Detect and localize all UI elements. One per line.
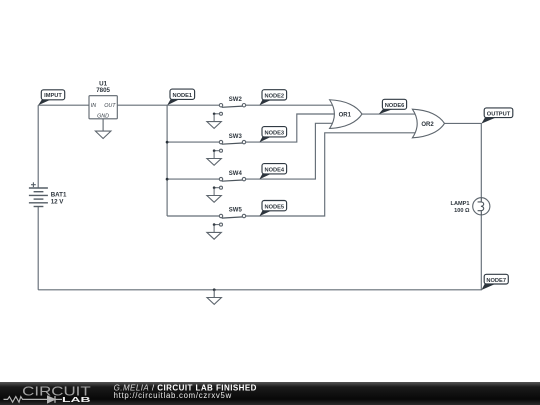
node label NODE3 [259, 127, 286, 143]
ground below SW2 [207, 122, 221, 129]
node label NODE5 [259, 201, 286, 217]
svg-text:NODE1: NODE1 [172, 93, 192, 99]
svg-text:NODE2: NODE2 [264, 94, 284, 100]
footer logo resistor squiggle [4, 397, 48, 403]
svg-text:http://circuitlab.com/czrxv5w: http://circuitlab.com/czrxv5w [114, 391, 232, 400]
svg-text:LAMP1: LAMP1 [451, 201, 470, 207]
node label IMPUT [38, 90, 64, 106]
svg-text:NODE7: NODE7 [486, 278, 506, 284]
wire rail to SW5 [167, 215, 219, 217]
or-gate OR2 [412, 109, 444, 138]
wire rail to SW3 [167, 141, 219, 143]
svg-text:12 V: 12 V [51, 198, 65, 205]
svg-text:SW5: SW5 [229, 208, 243, 214]
ground below U1 [95, 131, 111, 138]
junction on rail at SW4 row [166, 178, 169, 181]
wire rail to SW4 [167, 178, 219, 180]
wire SW5 to OR2 lower input [246, 133, 415, 216]
wire battery bottom lead [37, 207, 39, 290]
svg-text:100 Ω: 100 Ω [454, 208, 470, 214]
footer bar [0, 382, 540, 405]
ground below SW5 [207, 232, 221, 239]
svg-text:OR2: OR2 [421, 122, 434, 128]
switch SW5 [213, 208, 246, 233]
svg-text:NODE3: NODE3 [264, 130, 284, 136]
wire NODE1 vertical rail [166, 105, 168, 216]
wire battery top lead [37, 105, 39, 188]
wire U1 OUT to SW2 [117, 104, 219, 106]
wire lamp to bottom rail [38, 215, 481, 290]
node label NODE1 [167, 89, 194, 105]
svg-text:7805: 7805 [96, 87, 110, 94]
wire OR1 output to OR2 upper input [362, 113, 415, 115]
switch SW2 [213, 97, 246, 122]
switch SW3 [213, 134, 246, 159]
junction at bottom ground [213, 288, 216, 291]
svg-text:SW2: SW2 [229, 97, 243, 103]
node label NODE4 [259, 164, 286, 180]
ground at bottom rail [207, 290, 221, 305]
svg-text:NODE4: NODE4 [264, 167, 284, 173]
node label OUTPUT [481, 108, 512, 124]
wire input rail to U1 IN [38, 104, 89, 106]
node label NODE2 [259, 90, 286, 106]
switch SW4 [213, 171, 246, 196]
svg-text:NODE6: NODE6 [385, 103, 405, 109]
svg-text:NODE5: NODE5 [264, 204, 284, 210]
svg-text:GND: GND [97, 114, 109, 120]
svg-text:IN: IN [91, 103, 96, 109]
or-gate OR1 [330, 100, 362, 129]
junction on rail at SW3 row [166, 141, 169, 144]
ground below SW3 [207, 159, 221, 166]
svg-text:SW4: SW4 [229, 171, 243, 177]
wire SW2 to OR1 input1 [246, 104, 333, 106]
wire SW3 to OR1 input2 [246, 114, 336, 142]
battery BAT1 [29, 182, 48, 206]
svg-text:OUT: OUT [104, 103, 116, 109]
svg-text:OUTPUT: OUTPUT [487, 111, 511, 117]
node label NODE6 [379, 99, 407, 114]
wire OR2 output to lamp [445, 123, 482, 197]
svg-text:IMPUT: IMPUT [44, 93, 62, 99]
svg-text:SW3: SW3 [229, 134, 243, 140]
node label NODE7 [481, 274, 508, 290]
lamp LAMP1 [451, 198, 490, 215]
ground below SW4 [207, 196, 221, 203]
footer logo diode [48, 396, 63, 403]
wire SW4 to OR1 input3 [246, 123, 333, 179]
regulator U1 [89, 80, 117, 131]
svg-text:LAB: LAB [62, 395, 91, 404]
svg-text:OR1: OR1 [339, 113, 352, 119]
